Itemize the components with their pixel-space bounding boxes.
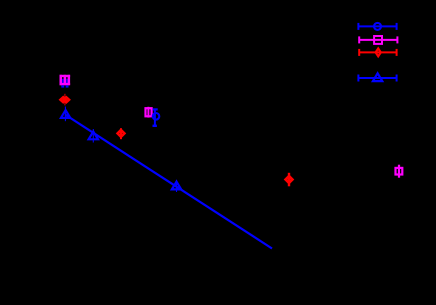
- legend entry 2: magenta square with horizontal errorbar: [359, 36, 397, 44]
- blue circle C3 with capped errorbar: [153, 109, 160, 127]
- red diamond D2 with errorbar: [118, 128, 125, 139]
- red diamond pair D1a/D1b with faint errorbars: [60, 94, 69, 106]
- fit line (blue): [65, 115, 272, 249]
- legend entry 1: blue circle with horizontal errorbar: [358, 23, 396, 30]
- blue circle point C2 (mostly hidden behind square S1b): [66, 79, 69, 88]
- magenta square S1b (overlapping pair, right): [68, 75, 71, 85]
- blue triangle T1 with errorbar: [61, 107, 70, 122]
- magenta square S1a (overlapping pair, left): [60, 75, 71, 85]
- magenta square S2 with errorbar: [146, 107, 152, 118]
- blue circle point C1 (mostly hidden behind square S1a): [61, 79, 64, 88]
- legend entry 3: red diamond with horizontal errorbar: [359, 49, 396, 57]
- blue triangle T3 with errorbar: [172, 180, 181, 192]
- magenta square S3 with capped errorbar: [396, 165, 403, 178]
- legend entry 4: blue triangle with horizontal errorbar: [358, 73, 396, 81]
- red diamond D3 with errorbar: [286, 173, 293, 187]
- blue triangle T2 with errorbar: [89, 129, 98, 143]
